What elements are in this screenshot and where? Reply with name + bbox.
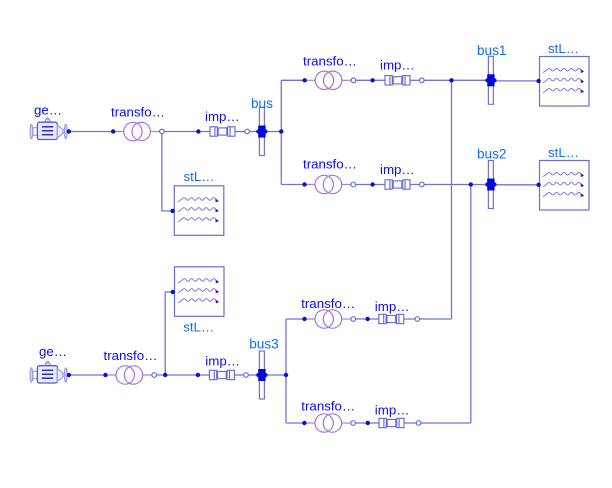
label bus1 [477, 43, 506, 58]
svg-text:imp…: imp… [205, 354, 240, 369]
wire transfo5 to imp5 [353, 318, 379, 320]
svg-text:stL…: stL… [548, 145, 579, 160]
terminal circle imp2 right [420, 78, 425, 83]
svg-text:imp…: imp… [380, 162, 415, 177]
impedance Z2 [385, 76, 410, 85]
terminal dot stLoad2r input [536, 183, 540, 187]
wire T1 to transfo3 [281, 184, 304, 186]
load stLoad3 box (lower left) [175, 267, 225, 317]
terminal circle imp3 right [420, 182, 425, 187]
terminal circle transfo5 right [351, 317, 356, 322]
terminal dot stLoad2 input [170, 209, 174, 213]
label bus3 [249, 336, 278, 351]
wire imp1 to bus [249, 131, 259, 133]
terminal dot stLoad3 input [171, 290, 175, 294]
terminal dot transfo4 left [103, 373, 107, 377]
wire transfo1 down to stLoad2 [162, 134, 172, 211]
wire imp4 to bus3 [248, 374, 259, 376]
label Z6 'imp…' [375, 403, 410, 418]
wire transfo3 to imp3 [353, 184, 385, 186]
wire bus2 to stLoad2r [493, 184, 538, 186]
label Z3 'imp…' [380, 162, 415, 177]
svg-text:ge…: ge… [34, 103, 62, 118]
svg-text:bus2: bus2 [477, 147, 506, 162]
terminal dot gen1 output [67, 129, 71, 133]
wire gen2 to transfo4 [69, 374, 106, 376]
wire imp1 right lead [235, 131, 250, 133]
wire node to stLoad3 [165, 292, 172, 375]
wire bus3 to node T4 [264, 374, 286, 376]
svg-text:transfo…: transfo… [104, 348, 158, 363]
generator G2 [30, 361, 67, 383]
label stLoad1 'stL…' [548, 41, 579, 56]
label T3a 'transfo…' [303, 156, 357, 171]
label Z4 'imp…' [205, 354, 240, 369]
transformer T4a [106, 366, 153, 384]
junction node T2 top [449, 78, 453, 82]
wire imp3 to bus2 [424, 184, 488, 186]
wire imp4 right lead [234, 374, 248, 376]
impedance Z1 [210, 127, 235, 136]
bus busbar 'bus' [256, 108, 267, 156]
terminal circle transfo2 right [351, 78, 356, 83]
svg-text:bus: bus [251, 96, 273, 111]
svg-text:transfo…: transfo… [301, 296, 355, 311]
wire transfo6 to imp6 [353, 422, 379, 424]
wire trunk T4 vertical [285, 319, 287, 423]
svg-text:ge…: ge… [39, 344, 67, 359]
label stLoad2 'stL…' [184, 169, 215, 184]
terminal circle imp1 right [245, 129, 250, 134]
label G1 'ge…' [34, 103, 62, 118]
terminal dot gen2 output [67, 373, 71, 377]
terminal circle transfo4 right [152, 373, 157, 378]
wire trunk T3 vertical [470, 185, 472, 424]
label T6a 'transfo…' [301, 398, 355, 413]
svg-text:transfo…: transfo… [303, 53, 357, 68]
junction node T3 top [469, 182, 473, 186]
label Z1 'imp…' [205, 109, 240, 124]
terminal circle transfo1 right [160, 129, 165, 134]
svg-text:imp…: imp… [375, 299, 410, 314]
wire imp3 right lead [410, 184, 424, 186]
transformer T3a [305, 175, 352, 193]
svg-text:bus3: bus3 [249, 336, 278, 351]
wire transfo4 to imp4 [154, 374, 209, 376]
terminal circle transfo3 right [351, 182, 356, 187]
svg-text:transfo…: transfo… [111, 105, 165, 120]
generator G1 [30, 118, 67, 140]
impedance Z4 [209, 370, 234, 379]
wire bus1 to stLoad1 [493, 80, 538, 82]
impedance Z5 [379, 314, 404, 323]
wire transfo2 to imp2 [353, 79, 385, 81]
wire gen1 to transfo1 [69, 131, 113, 133]
label Z5 'imp…' [375, 299, 410, 314]
wire T4 to transfo6 [286, 422, 304, 424]
svg-text:transfo…: transfo… [303, 156, 357, 171]
svg-text:imp…: imp… [375, 403, 410, 418]
svg-text:stL…: stL… [183, 319, 214, 334]
wire imp2 to bus1 [424, 79, 488, 81]
wire T1 to transfo2 [281, 79, 304, 81]
load stLoad1 box [540, 57, 590, 107]
wire imp6 right lead [404, 422, 421, 424]
transformer T6a [304, 414, 351, 432]
junction node stLoad3 branch [163, 373, 167, 377]
wire trunk T2 vertical [451, 80, 453, 319]
label bus [251, 96, 273, 111]
terminal dot transfo1 left [111, 129, 115, 133]
wire imp6 to T3 [421, 422, 471, 424]
junction node bus3-T4 [284, 373, 288, 377]
svg-text:imp…: imp… [205, 109, 240, 124]
transformer T2a [305, 71, 352, 89]
terminal dot transfo5 left [302, 317, 306, 321]
transformer T1a [113, 122, 160, 140]
terminal circle imp4 right [244, 373, 249, 378]
label T1a 'transfo…' [111, 105, 165, 120]
load stLoad2r box [540, 161, 590, 211]
terminal dot transfo3 left [302, 182, 306, 186]
svg-text:stL…: stL… [548, 41, 579, 56]
terminal dot imp6 left [366, 421, 370, 425]
terminal dot transfo2 left [303, 78, 307, 82]
load stLoad2 box (left) [174, 186, 224, 236]
terminal dot imp2 left [370, 78, 374, 82]
terminal circle imp6 right [416, 421, 421, 426]
terminal dot stLoad1 input [536, 79, 540, 83]
label stLoad2r 'stL…' [548, 145, 579, 160]
wire imp5 to T2 [420, 318, 452, 320]
label T4a 'transfo…' [104, 348, 158, 363]
label T5a 'transfo…' [301, 296, 355, 311]
wire imp5 right lead [404, 318, 420, 320]
wire T4 to transfo5 [286, 318, 305, 320]
bus busbar bus2 [485, 161, 496, 209]
terminal circle transfo6 right [351, 421, 356, 426]
terminal dot imp3 left [370, 182, 374, 186]
svg-text:bus1: bus1 [477, 43, 506, 58]
label Z2 'imp…' [380, 57, 415, 72]
terminal dot imp5 left [365, 317, 369, 321]
wire trunk T1 vertical [280, 80, 282, 184]
label G2 'ge…' [39, 344, 67, 359]
wire bus to node T1 [264, 131, 281, 133]
impedance Z6 [379, 418, 404, 427]
junction node T1-bus [279, 129, 283, 133]
terminal dot transfo6 left [302, 421, 306, 425]
wire imp2 right lead [410, 79, 424, 81]
label T2a 'transfo…' [303, 53, 357, 68]
terminal dot imp4 left [196, 373, 200, 377]
wire transfo1 to imp1 [162, 131, 210, 133]
terminal dot imp1 left [196, 129, 200, 133]
bus busbar bus1 [485, 56, 496, 104]
terminal circle imp5 right [415, 317, 420, 322]
svg-text:imp…: imp… [380, 57, 415, 72]
svg-text:transfo…: transfo… [301, 398, 355, 413]
bus busbar bus3 [256, 351, 267, 399]
impedance Z3 [385, 180, 410, 189]
label stLoad3 'stL…' [183, 319, 214, 334]
label bus2 [477, 147, 506, 162]
svg-text:stL…: stL… [184, 169, 215, 184]
transformer T5a [305, 310, 352, 328]
